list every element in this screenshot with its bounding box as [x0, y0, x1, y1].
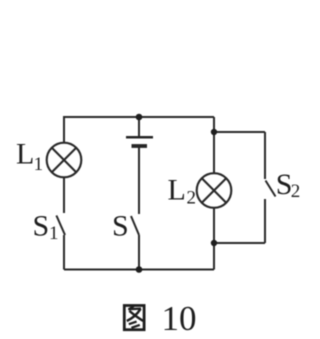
- switch S1 blade: [56, 216, 65, 236]
- lamp L2: [197, 173, 232, 208]
- wire S2 branch upper: [264, 132, 266, 179]
- wire battery to switch S: [138, 148, 140, 215]
- svg-text:S: S: [112, 210, 129, 243]
- switch S blade: [131, 216, 139, 235]
- wire S2 branch lower: [264, 199, 266, 243]
- wire left branch lower: [63, 235, 65, 270]
- svg-text:L: L: [16, 138, 34, 171]
- lamp L1: [47, 143, 82, 178]
- svg-text:2: 2: [187, 188, 197, 209]
- svg-text:1: 1: [49, 223, 59, 244]
- wire node to S2 top: [214, 131, 265, 133]
- wire right branch lower: [213, 243, 215, 270]
- wire bottom horizontal: [64, 269, 214, 271]
- svg-text:1: 1: [34, 154, 44, 175]
- wire right branch upper: [213, 117, 215, 173]
- caption: character 图 drawn as strokes: [124, 306, 144, 330]
- svg-text:10: 10: [162, 299, 197, 338]
- battery cell plates: [126, 137, 153, 146]
- wire battery top stub: [138, 117, 140, 136]
- node dot right top (L2/S2 junction): [211, 129, 217, 135]
- wire right branch middle (lamp L2 to node): [213, 208, 215, 243]
- wire left branch upper: [63, 116, 65, 143]
- wire left branch middle (lamp L1 to switch S1): [63, 178, 65, 214]
- svg-text:S: S: [33, 210, 50, 243]
- svg-text:L: L: [168, 173, 186, 206]
- wire top horizontal: [64, 116, 214, 118]
- switch S2 blade: [266, 181, 276, 197]
- node dot right bottom (L2/S2 junction): [211, 240, 217, 246]
- svg-text:2: 2: [291, 181, 301, 202]
- node dot bottom (switch S/bottom wire junction): [136, 266, 143, 273]
- wire S2 bottom return: [214, 242, 265, 244]
- node dot top (battery/top wire junction): [136, 114, 143, 121]
- wire middle branch lower: [138, 235, 140, 270]
